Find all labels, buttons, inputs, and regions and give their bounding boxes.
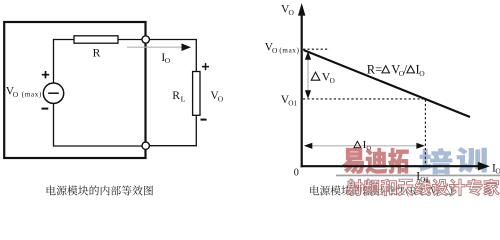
svg-text:O: O xyxy=(330,77,335,85)
svg-text:O: O xyxy=(13,90,19,99)
svg-text:O: O xyxy=(218,94,224,103)
svg-text:L: L xyxy=(181,94,186,103)
svg-text:R: R xyxy=(172,89,180,102)
svg-text:0: 0 xyxy=(294,167,299,178)
svg-text:O: O xyxy=(289,8,295,17)
svg-text:O1: O1 xyxy=(288,99,297,107)
svg-text:R=: R= xyxy=(367,62,382,76)
svg-text:O: O xyxy=(419,69,425,78)
svg-text:/: / xyxy=(404,62,408,76)
svg-text:R: R xyxy=(93,47,101,60)
svg-text:O: O xyxy=(165,56,171,65)
svg-text:(max): (max) xyxy=(279,46,299,54)
svg-text:O: O xyxy=(366,145,371,152)
svg-text:(max): (max) xyxy=(22,91,42,99)
svg-text:O: O xyxy=(272,46,278,55)
svg-text:O: O xyxy=(495,167,500,176)
svg-text:O1: O1 xyxy=(420,176,429,184)
